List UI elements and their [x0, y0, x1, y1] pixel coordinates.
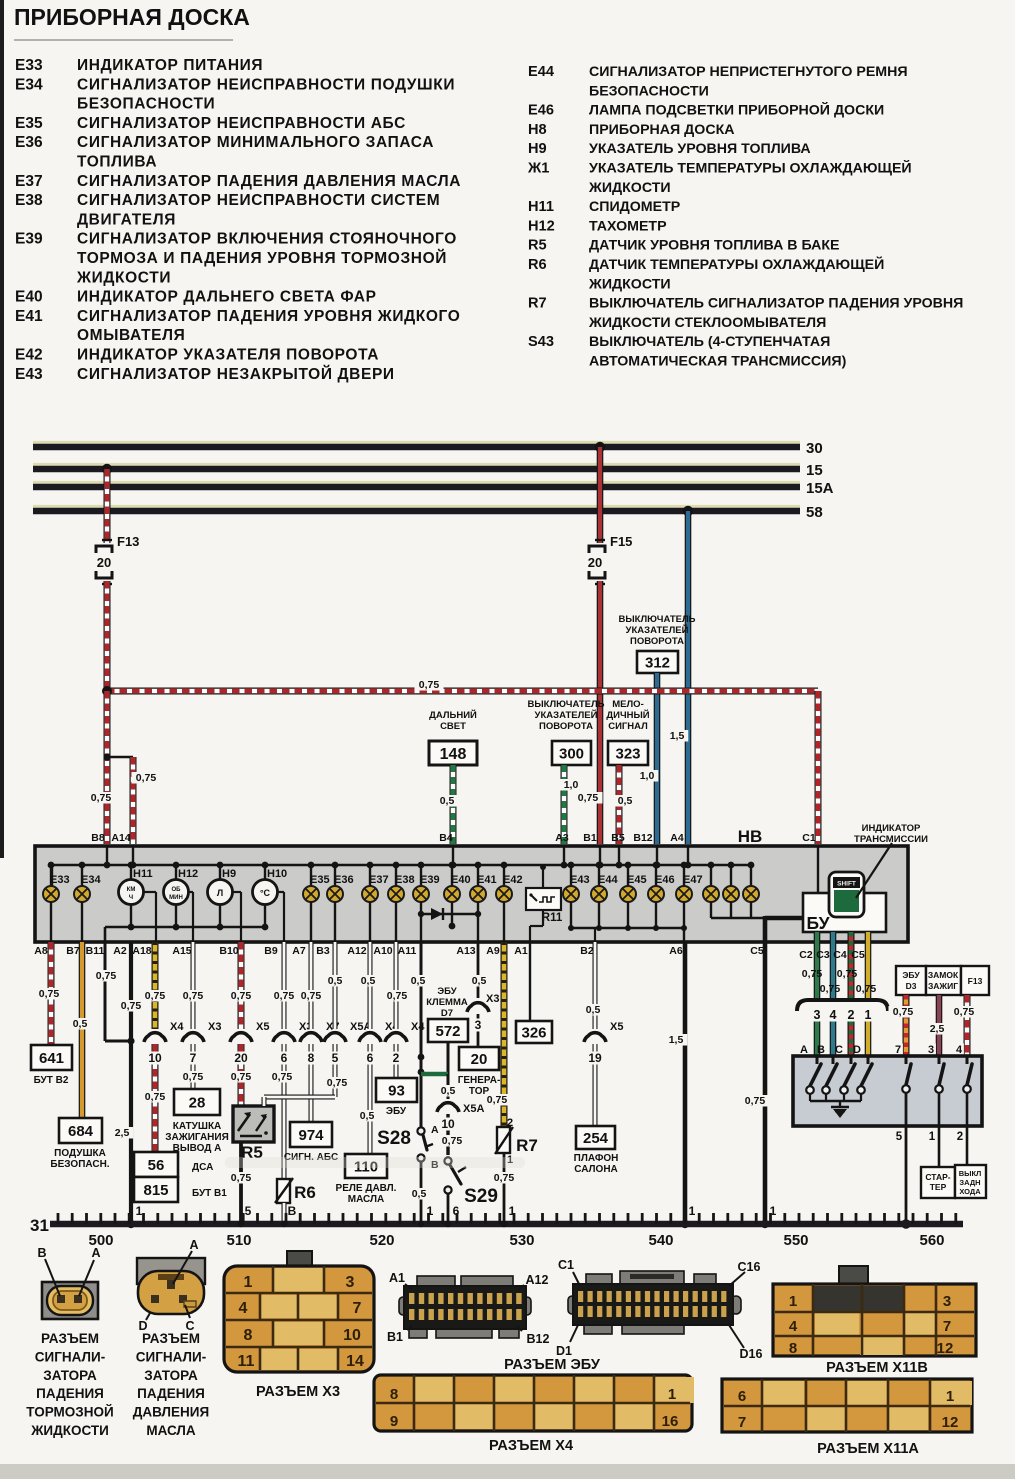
wire S43-2 to ВЫКЛ ЗАДН ХОДА	[966, 1093, 969, 1165]
svg-text:СИГНАЛИЗАТОР МИНИМАЛЬНОГО ЗАПА: СИГНАЛИЗАТОР МИНИМАЛЬНОГО ЗАПАСА	[77, 134, 434, 151]
svg-text:B3: B3	[316, 945, 330, 957]
wire A15	[191, 942, 196, 1029]
svg-text:Ж1: Ж1	[527, 161, 549, 177]
svg-text:E39: E39	[420, 874, 440, 886]
internal bottom rail (gauges common)	[105, 926, 265, 929]
svg-text:ТАХОМЕТР: ТАХОМЕТР	[589, 218, 667, 234]
svg-text:28: 28	[189, 1094, 206, 1111]
svg-text:H9: H9	[222, 868, 236, 880]
svg-text:A8: A8	[34, 945, 48, 957]
svg-text:ТРАНСМИССИИ: ТРАНСМИССИИ	[854, 834, 928, 845]
svg-text:3: 3	[814, 1008, 821, 1022]
svg-text:ВЫКЛЮЧАТЕЛЬ (4-СТУПЕНЧАТАЯ: ВЫКЛЮЧАТЕЛЬ (4-СТУПЕНЧАТАЯ	[589, 334, 830, 350]
svg-text:E35: E35	[310, 874, 330, 886]
connector X3 pin 7	[186, 1029, 200, 1043]
svg-text:ЛАМПА ПОДСВЕТКИ ПРИБОРНОЙ ДОСК: ЛАМПА ПОДСВЕТКИ ПРИБОРНОЙ ДОСКИ	[589, 101, 884, 119]
svg-text:СИГНАЛИЗАТОР НЕИСПРАВНОСТИ СИС: СИГНАЛИЗАТОР НЕИСПРАВНОСТИ СИСТЕМ	[77, 192, 440, 209]
svg-text:8: 8	[390, 1386, 398, 1403]
svg-text:20: 20	[234, 1051, 248, 1065]
svg-text:ПОВОРОТА: ПОВОРОТА	[630, 636, 684, 647]
svg-text:20: 20	[588, 555, 602, 570]
svg-text:B: B	[817, 1044, 825, 1056]
svg-text:ДАТЧИК ТЕМПЕРАТУРЫ ОХЛАЖДАЮЩЕЙ: ДАТЧИК ТЕМПЕРАТУРЫ ОХЛАЖДАЮЩЕЙ	[589, 255, 884, 273]
svg-text:0,5: 0,5	[411, 975, 426, 987]
svg-text:БУТ В1: БУТ В1	[192, 1188, 227, 1199]
svg-text:СИГНАЛИЗАТОР ВКЛЮЧЕНИЯ СТОЯНОЧ: СИГНАЛИЗАТОР ВКЛЮЧЕНИЯ СТОЯНОЧНОГО	[77, 231, 457, 248]
svg-text:E37: E37	[15, 173, 43, 190]
svg-text:R6: R6	[294, 1183, 316, 1202]
svg-text:УКАЗАТЕЛЬ ТЕМПЕРАТУРЫ ОХЛАЖДАЮ: УКАЗАТЕЛЬ ТЕМПЕРАТУРЫ ОХЛАЖДАЮЩЕЙ	[589, 159, 912, 177]
svg-text:АВТОМАТИЧЕСКАЯ ТРАНСМИССИЯ): АВТОМАТИЧЕСКАЯ ТРАНСМИССИЯ)	[589, 354, 847, 370]
svg-text:ВЫКЛЮЧАТЕЛЬ СИГНАЛИЗАТОР ПАДЕН: ВЫКЛЮЧАТЕЛЬ СИГНАЛИЗАТОР ПАДЕНИЯ УРОВНЯ	[589, 296, 963, 312]
wire B10	[238, 942, 245, 1029]
svg-text:X4: X4	[170, 1021, 184, 1033]
svg-text:E39: E39	[15, 231, 43, 248]
wire A9 to R7	[501, 942, 508, 1127]
connector X5 pin 19	[588, 1029, 602, 1043]
svg-text:S28: S28	[377, 1128, 411, 1149]
svg-text:РАЗЪЕМ: РАЗЪЕМ	[142, 1331, 200, 1346]
svg-text:SHIFT: SHIFT	[837, 881, 856, 888]
bus 31 wire junction dots	[238, 1221, 244, 1227]
svg-text:ДАВЛЕНИЯ: ДАВЛЕНИЯ	[133, 1405, 209, 1420]
connector X3 pin 6	[277, 1029, 291, 1043]
svg-text:15: 15	[806, 462, 823, 479]
svg-text:0,5: 0,5	[441, 1085, 456, 1097]
svg-text:S29: S29	[464, 1186, 498, 1207]
svg-text:E35: E35	[15, 115, 43, 132]
wire hatched 0,75 horizontal run to C1	[107, 688, 818, 695]
svg-text:H11: H11	[133, 868, 153, 880]
title rule	[14, 39, 233, 41]
svg-text:0,5: 0,5	[586, 1004, 601, 1016]
svg-text:2: 2	[957, 1131, 963, 1143]
svg-text:E38: E38	[15, 192, 43, 209]
svg-text:A1: A1	[514, 945, 528, 957]
svg-text:B7: B7	[66, 945, 80, 957]
svg-text:A10: A10	[373, 945, 392, 957]
connector 326	[516, 1021, 552, 1043]
svg-text:1: 1	[668, 1386, 676, 1403]
svg-text:ИНДИКАТОР ДАЛЬНЕГО СВЕТА ФАР: ИНДИКАТОР ДАЛЬНЕГО СВЕТА ФАР	[77, 289, 377, 306]
svg-text:D: D	[853, 1044, 861, 1056]
svg-text:0,75: 0,75	[745, 1095, 766, 1107]
svg-text:530: 530	[509, 1232, 534, 1249]
svg-text:572: 572	[435, 1023, 460, 1040]
svg-text:C2: C2	[799, 949, 813, 961]
svg-text:0,75: 0,75	[231, 1071, 252, 1083]
svg-text:РАЗЪЕМ Х4: РАЗЪЕМ Х4	[489, 1438, 573, 1454]
svg-text:D1: D1	[556, 1344, 572, 1358]
svg-text:300: 300	[559, 745, 584, 762]
transmission switch S43	[793, 1056, 982, 1126]
box ЗАМОК ЗАЖИГ	[926, 966, 961, 995]
svg-text:B1: B1	[387, 1330, 403, 1344]
svg-text:H10: H10	[267, 868, 287, 880]
svg-text:R7: R7	[528, 296, 547, 312]
svg-text:РАЗЪЕМ ЭБУ: РАЗЪЕМ ЭБУ	[504, 1357, 601, 1373]
node fuse F13 tap on bus 15	[102, 464, 112, 474]
svg-text:B10: B10	[219, 945, 238, 957]
transmission indicator SHIFT	[829, 872, 864, 917]
svg-text:БЕЗОПАСН.: БЕЗОПАСН.	[50, 1159, 109, 1170]
connector X7 pin 8	[304, 1029, 318, 1043]
S43 contact 967	[966, 1056, 969, 1064]
svg-text:A4: A4	[670, 832, 684, 844]
wire F15 feed	[597, 447, 604, 543]
wire F13 to node A	[104, 581, 111, 691]
lamp E36	[334, 865, 336, 886]
lamp bottom drops	[50, 902, 52, 942]
svg-text:0,75: 0,75	[442, 1135, 463, 1147]
connector X11A	[722, 1379, 972, 1432]
svg-text:815: 815	[143, 1182, 168, 1199]
svg-text:0,75: 0,75	[837, 968, 858, 980]
svg-text:312: 312	[645, 654, 670, 671]
wire F13 feed	[104, 469, 111, 543]
svg-text:20: 20	[471, 1051, 488, 1068]
svg-text:B11: B11	[86, 945, 105, 957]
connector 28 КАТУШКА ЗАЖИГАНИЯ	[174, 1089, 220, 1115]
svg-text:ЗАДН: ЗАДН	[959, 1178, 980, 1187]
svg-text:СИГНАЛИЗАТОР ПАДЕНИЯ УРОВНЯ ЖИ: СИГНАЛИЗАТОР ПАДЕНИЯ УРОВНЯ ЖИДКОГО	[77, 308, 460, 325]
svg-text:A: A	[91, 1246, 100, 1260]
svg-text:326: 326	[521, 1024, 546, 1041]
svg-text:A12: A12	[526, 1273, 549, 1287]
wire A7	[309, 942, 314, 1029]
lamp E45	[627, 865, 629, 886]
thick link БУ to C5	[765, 916, 803, 921]
svg-text:A9: A9	[486, 945, 500, 957]
svg-text:A: A	[431, 1124, 439, 1136]
wire B9	[282, 942, 287, 1029]
svg-text:0,75: 0,75	[272, 1071, 293, 1083]
wire A2 ground run	[129, 942, 133, 1224]
svg-text:A: A	[189, 1238, 198, 1252]
svg-text:1: 1	[136, 1204, 143, 1218]
svg-text:E40: E40	[15, 289, 43, 306]
svg-text:0,75: 0,75	[145, 990, 166, 1002]
svg-text:7: 7	[353, 1300, 362, 1317]
svg-text:E43: E43	[15, 366, 43, 383]
svg-text:ВЫКЛ: ВЫКЛ	[959, 1169, 982, 1178]
svg-text:11: 11	[238, 1353, 255, 1370]
svg-text:ДСА: ДСА	[192, 1162, 213, 1173]
svg-text:E34: E34	[15, 76, 43, 93]
svg-text:4: 4	[789, 1318, 798, 1335]
svg-text:12: 12	[937, 1340, 954, 1357]
svg-text:КЛЕММА: КЛЕММА	[426, 997, 468, 1008]
svg-text:X3: X3	[208, 1021, 221, 1033]
svg-text:ПОВОРОТА: ПОВОРОТА	[539, 721, 593, 732]
wire S43-1 to СТАРТЕР	[938, 1093, 941, 1167]
svg-text:A2: A2	[113, 945, 127, 957]
switch S29	[444, 1157, 451, 1164]
bus 31 ticks	[57, 1213, 60, 1224]
svg-text:10: 10	[441, 1117, 455, 1131]
svg-text:0,5: 0,5	[440, 795, 455, 807]
svg-text:ДИЧНЫЙ: ДИЧНЫЙ	[606, 709, 649, 721]
svg-text:16: 16	[662, 1413, 679, 1430]
svg-text:31: 31	[30, 1216, 49, 1235]
svg-text:СИГНАЛИЗАТОР НЕИСПРАВНОСТИ АБС: СИГНАЛИЗАТОР НЕИСПРАВНОСТИ АБС	[77, 115, 406, 132]
relay 110 РЕЛЕ ДАВЛ МАСЛА	[345, 1154, 387, 1178]
svg-text:E43: E43	[570, 874, 590, 886]
svg-text:A15: A15	[172, 945, 191, 957]
svg-text:ВЫКЛЮЧАТЕЛЬ: ВЫКЛЮЧАТЕЛЬ	[619, 614, 696, 625]
lamp E33	[50, 865, 52, 886]
svg-text:7: 7	[895, 1044, 901, 1056]
internal top rail	[52, 864, 751, 867]
svg-text:0,5: 0,5	[73, 1018, 88, 1030]
svg-text:E34: E34	[81, 874, 101, 886]
svg-text:ИНДИКАТОР УКАЗАТЕЛЯ ПОВОРОТА: ИНДИКАТОР УКАЗАТЕЛЯ ПОВОРОТА	[77, 347, 379, 364]
svg-text:C5: C5	[851, 949, 865, 961]
wire S43-5 to bus 31	[905, 1093, 908, 1224]
lamp E46	[655, 865, 657, 886]
svg-text:0,75: 0,75	[301, 990, 322, 1002]
wire F15 to pin B1	[597, 581, 604, 844]
svg-text:B: B	[37, 1246, 46, 1260]
wire A12	[368, 942, 373, 1029]
svg-text:C1: C1	[558, 1258, 574, 1272]
indicator label	[856, 843, 892, 898]
svg-text:6: 6	[281, 1051, 288, 1065]
S43 bottom pin labels	[894, 1130, 904, 1143]
svg-text:A3: A3	[555, 832, 569, 844]
connector 641 БУТ В2	[31, 1045, 72, 1070]
wire A18	[152, 942, 159, 1029]
svg-text:3: 3	[346, 1274, 355, 1291]
svg-text:B1: B1	[583, 832, 597, 844]
svg-text:A18: A18	[132, 945, 151, 957]
connector ЭБУ A/B	[417, 1276, 455, 1288]
bus 30	[33, 441, 800, 444]
svg-text:7: 7	[738, 1414, 746, 1431]
lamp E35	[310, 865, 312, 886]
svg-text:1: 1	[865, 1008, 872, 1022]
svg-text:0,75: 0,75	[419, 679, 440, 691]
svg-text:2: 2	[848, 1008, 855, 1022]
washer level switch R7	[497, 1127, 510, 1153]
svg-text:МАСЛА: МАСЛА	[146, 1423, 196, 1438]
lamp E34	[81, 865, 83, 886]
svg-text:1: 1	[946, 1388, 954, 1405]
svg-text:ПАДЕНИЯ: ПАДЕНИЯ	[36, 1386, 104, 1401]
svg-text:0,75: 0,75	[893, 1006, 914, 1018]
svg-text:ХОДА: ХОДА	[959, 1187, 981, 1196]
svg-text:ТЕР: ТЕР	[930, 1182, 947, 1192]
svg-text:A14: A14	[111, 832, 130, 844]
lamp E38	[395, 865, 397, 886]
svg-text:254: 254	[583, 1130, 609, 1147]
flasher unit R11	[526, 888, 561, 910]
svg-text:2,5: 2,5	[930, 1023, 945, 1035]
svg-text:ТОПЛИВА: ТОПЛИВА	[77, 154, 157, 171]
wire 323 to pin B5	[616, 765, 623, 844]
wire A8 to 641	[48, 942, 55, 1045]
svg-text:РЕЛЕ ДАВЛ.: РЕЛЕ ДАВЛ.	[336, 1183, 397, 1194]
svg-text:C4: C4	[833, 949, 847, 961]
temp sensor R6	[277, 1179, 290, 1203]
lamp E39	[420, 865, 422, 886]
svg-text:0,5: 0,5	[328, 975, 343, 987]
S43 contact 868	[867, 1056, 870, 1064]
svg-text:УКАЗАТЕЛЕЙ: УКАЗАТЕЛЕЙ	[535, 709, 598, 721]
svg-text:ТОРМОЗНОЙ: ТОРМОЗНОЙ	[26, 1405, 113, 1420]
brake fluid sensor connector	[42, 1282, 98, 1319]
wire C1 inside panel to БУ	[817, 846, 819, 893]
wire 300 to pin A3	[561, 765, 568, 844]
svg-text:ЗАМОК: ЗАМОК	[928, 970, 959, 980]
svg-text:540: 540	[648, 1232, 673, 1249]
connector X3	[287, 1251, 312, 1269]
svg-text:20: 20	[97, 555, 111, 570]
svg-text:30: 30	[806, 440, 823, 457]
svg-text:F15: F15	[610, 534, 632, 549]
svg-text:B: B	[288, 1204, 297, 1218]
svg-text:2,5: 2,5	[115, 1127, 130, 1139]
wire A11 to S28	[420, 942, 423, 1127]
wire B7 to 684	[79, 942, 86, 1118]
svg-text:0,75: 0,75	[856, 983, 877, 995]
wire B3	[333, 942, 338, 1029]
svg-text:14: 14	[346, 1353, 364, 1370]
svg-text:МЕЛО-: МЕЛО-	[612, 699, 643, 710]
lamp E47	[683, 865, 685, 886]
svg-text:10: 10	[148, 1051, 162, 1065]
gauge H9	[219, 865, 221, 880]
fuel sender R5	[233, 1106, 274, 1142]
svg-text:0,75: 0,75	[96, 970, 117, 982]
wire A10	[394, 942, 399, 1029]
wire 148 to pin B4	[450, 765, 457, 844]
top pin stubs into rail	[106, 846, 108, 865]
node bus 58 tap	[683, 506, 693, 516]
svg-text:H9: H9	[528, 141, 547, 157]
diode inside panel	[421, 913, 478, 915]
connector 684 ПОДУШКА БЕЗОПАСН	[59, 1118, 102, 1143]
svg-text:3: 3	[928, 1044, 934, 1056]
svg-text:3: 3	[475, 1018, 482, 1032]
svg-text:0,75: 0,75	[274, 990, 295, 1002]
svg-text:15A: 15A	[806, 480, 834, 497]
svg-text:D16: D16	[740, 1347, 763, 1361]
svg-text:12: 12	[942, 1414, 959, 1431]
svg-text:КАТУШКА: КАТУШКА	[173, 1121, 222, 1132]
svg-text:C3: C3	[816, 949, 830, 961]
connector X4 pin 2	[389, 1029, 403, 1043]
wire B3 elbow into R5	[264, 1095, 335, 1100]
svg-text:1: 1	[689, 1204, 696, 1218]
svg-text:РАЗЪЕМ Х3: РАЗЪЕМ Х3	[256, 1384, 340, 1400]
S43 common rail + ground	[810, 1100, 861, 1102]
S43 contact 906	[905, 1056, 908, 1064]
svg-text:8: 8	[789, 1340, 797, 1357]
svg-text:ЖИДКОСТИ: ЖИДКОСТИ	[588, 276, 671, 292]
svg-text:СПИДОМЕТР: СПИДОМЕТР	[589, 199, 680, 215]
svg-text:0,75: 0,75	[39, 988, 60, 1000]
svg-text:520: 520	[369, 1232, 394, 1249]
lamp E37	[369, 865, 371, 886]
svg-text:E36: E36	[334, 874, 354, 886]
node A junction	[102, 686, 112, 696]
svg-text:ПОДУШКА: ПОДУШКА	[54, 1148, 106, 1159]
svg-text:СИГНАЛИЗАТОР НЕПРИСТЕГНУТОГО Р: СИГНАЛИЗАТОР НЕПРИСТЕГНУТОГО РЕМНЯ	[589, 64, 908, 80]
lamp E42	[503, 865, 505, 886]
svg-text:E45: E45	[627, 874, 647, 886]
svg-text:2: 2	[393, 1051, 400, 1065]
svg-text:7: 7	[190, 1051, 197, 1065]
svg-text:°C: °C	[260, 888, 271, 898]
lamp E40	[451, 865, 453, 886]
S43 contact 817	[816, 1056, 819, 1064]
svg-text:СИГНАЛИЗАТОР ПАДЕНИЯ ДАВЛЕНИЯ: СИГНАЛИЗАТОР ПАДЕНИЯ ДАВЛЕНИЯ МАСЛА	[77, 173, 461, 190]
svg-text:C: C	[835, 1044, 843, 1056]
svg-text:ВЫВОД А: ВЫВОД А	[173, 1143, 222, 1154]
wire A1 to 326	[529, 942, 531, 1021]
svg-text:ТОРМОЗА И ПАДЕНИЯ УРОВНЯ ТОРМО: ТОРМОЗА И ПАДЕНИЯ УРОВНЯ ТОРМОЗНОЙ	[77, 249, 447, 267]
gauge H12	[175, 865, 177, 880]
svg-text:0,75: 0,75	[183, 990, 204, 1002]
svg-text:0,75: 0,75	[121, 1000, 142, 1012]
svg-text:A12: A12	[347, 945, 366, 957]
svg-text:0,75: 0,75	[231, 990, 252, 1002]
control unit БУ box	[803, 893, 886, 932]
lamp unlabelled	[750, 865, 752, 886]
svg-text:Ч: Ч	[129, 895, 133, 901]
svg-text:0,75: 0,75	[136, 772, 157, 784]
generator 20 ГЕНЕРАТОР	[459, 1047, 499, 1070]
svg-text:19: 19	[588, 1051, 602, 1065]
svg-text:E46: E46	[655, 874, 675, 886]
svg-text:0,5: 0,5	[360, 1110, 375, 1122]
svg-text:H12: H12	[528, 218, 555, 234]
svg-text:B12: B12	[527, 1332, 550, 1346]
box ЭБУ D3	[896, 966, 926, 995]
wire C5 (to S43 D)	[865, 932, 872, 999]
svg-text:0,5: 0,5	[618, 795, 633, 807]
svg-text:Л: Л	[217, 888, 223, 898]
wire C5 to bus 31	[763, 942, 768, 1224]
svg-text:РАЗЪЕМ: РАЗЪЕМ	[41, 1331, 99, 1346]
scan smudge	[225, 1157, 525, 1168]
svg-text:0,75: 0,75	[145, 1091, 166, 1103]
svg-text:0,75: 0,75	[327, 1077, 348, 1089]
svg-text:ПЛАФОН: ПЛАФОН	[574, 1153, 619, 1164]
svg-text:СИГНАЛИЗАТОР НЕЗАКРЫТОЙ ДВЕРИ: СИГНАЛИЗАТОР НЕЗАКРЫТОЙ ДВЕРИ	[77, 365, 395, 383]
svg-text:РАЗЪЕМ X11A: РАЗЪЕМ X11A	[817, 1441, 919, 1457]
svg-text:ЭБУ: ЭБУ	[386, 1106, 407, 1117]
svg-text:0,5: 0,5	[412, 1188, 427, 1200]
svg-text:1,5: 1,5	[669, 1034, 684, 1046]
svg-text:D7: D7	[441, 1008, 453, 1019]
svg-text:X4: X4	[411, 1021, 425, 1033]
lamp unlabelled	[730, 865, 732, 886]
svg-text:ЖИДКОСТИ СТЕКЛООМЫВАТЕЛЯ: ЖИДКОСТИ СТЕКЛООМЫВАТЕЛЯ	[588, 315, 826, 331]
bus 15A	[33, 481, 800, 484]
wire R5 to bus 31	[239, 1142, 243, 1224]
svg-text:D3: D3	[906, 981, 917, 991]
svg-text:ЗАТОРА: ЗАТОРА	[144, 1368, 198, 1383]
svg-text:0,75: 0,75	[487, 1094, 508, 1106]
svg-text:5: 5	[896, 1131, 903, 1143]
svg-text:4: 4	[830, 1008, 837, 1022]
svg-text:641: 641	[39, 1050, 64, 1067]
svg-text:B2: B2	[580, 945, 594, 957]
svg-text:УКАЗАТЕЛЬ УРОВНЯ ТОПЛИВА: УКАЗАТЕЛЬ УРОВНЯ ТОПЛИВА	[589, 141, 811, 157]
connector ЭБУ C/D	[586, 1274, 612, 1286]
